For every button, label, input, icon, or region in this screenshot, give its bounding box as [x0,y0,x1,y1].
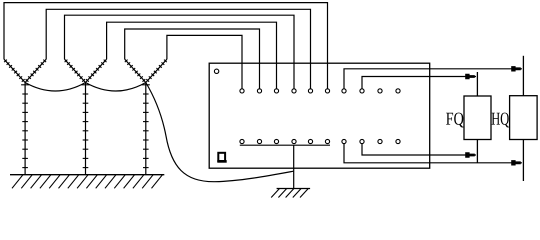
wire W6: electrode arm at x=167 to terminal at x=242 [167,35,242,88]
electrode E3 left arm (hatched conductor) [125,59,146,82]
wire D: bottom terminal 7 to HQ lead (with arrowhead) [344,144,522,163]
wire: curved lead from electrode E3 to earth point of box [146,83,294,182]
arc conductor between E1 and E2 [25,83,85,92]
wire W5: electrode arm at x=125 to terminal at x=260 [125,29,260,89]
indicator circle at box top-left [214,69,218,73]
electrode E2 ground rod (hatched) [82,83,90,175]
arc conductor between E2 and E3 [86,83,146,92]
terminal row (bottom, terminals 1-10) [240,139,400,143]
ground surface line (left) [10,174,164,176]
wire B: top terminal 8 to FQ lead (with arrowhead) [362,77,476,89]
icon: small meter window at box bottom-left [217,153,226,162]
ground surface hatching (left) [12,175,163,189]
label FQ [446,113,464,128]
FQ lead (vertical wire through FQ) [476,72,478,163]
wire A: top terminal 7 to HQ lead (with arrowhead) [344,69,522,89]
electrode E3 ground rod (hatched) [142,83,150,175]
wire W4: electrode arm at x=107 to terminal at x=276 [107,22,277,89]
component FQ (rectangle) [464,96,491,140]
electrode E2 right arm (hatched conductor) [86,59,107,82]
terminal row (top, terminals 1-10) [240,89,400,93]
wire W1: electrode arm at x=4 to terminal at x=328 [4,3,328,89]
electrode E1 ground rod (hatched) [21,83,29,175]
component HQ (rectangle) [510,96,537,140]
jumper wire linking bottom terminals 1-6 [240,144,330,146]
wire W3: electrode arm at x=64 to terminal at x=294 [65,15,295,89]
electrode E1 left arm (hatched conductor) [4,59,25,82]
HQ lead (vertical wire through HQ) [522,56,524,181]
electrode E2 left arm (hatched conductor) [65,59,86,82]
ground symbol (earth) below box [271,189,310,198]
wire W2: electrode arm at x=46 to terminal at x=310 [46,9,310,89]
electrode E3 right arm (hatched conductor) [146,59,167,82]
electrode E1 right arm (hatched conductor) [25,59,46,82]
earth lead wire from jumper to ground symbol [293,145,295,188]
label HQ [492,113,509,128]
terminal box (test set enclosure) [209,63,430,168]
wire C: bottom terminal 8 to FQ lead (with arrowhead) [362,144,476,155]
